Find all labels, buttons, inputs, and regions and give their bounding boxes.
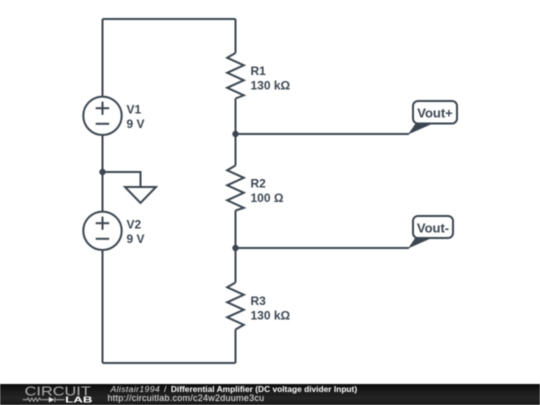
wire left upper xyxy=(102,19,104,97)
svg-text:V1: V1 xyxy=(127,103,142,117)
logo CircuitLab xyxy=(0,384,100,405)
svg-text:Vout-: Vout- xyxy=(417,220,449,235)
wire right mid2 xyxy=(235,211,237,283)
wire left middle xyxy=(102,135,104,212)
svg-text:Vout+: Vout+ xyxy=(417,105,453,120)
wire right upper xyxy=(235,19,237,53)
node junction R1/R2 xyxy=(232,131,238,137)
svg-text:R2: R2 xyxy=(251,177,267,191)
wire top rail xyxy=(103,18,236,20)
svg-text:V2: V2 xyxy=(127,218,142,232)
svg-text:130 kΩ: 130 kΩ xyxy=(251,79,291,93)
flag Vout- box xyxy=(413,216,453,238)
wire right mid1 xyxy=(235,99,237,166)
ground symbol xyxy=(125,187,156,203)
voltage source V1 xyxy=(83,97,121,135)
ground GND wire xyxy=(103,172,141,187)
svg-text:9 V: 9 V xyxy=(127,232,145,246)
svg-text:130 kΩ: 130 kΩ xyxy=(251,309,291,323)
resistor R1 xyxy=(227,53,244,99)
node junction R2/R3 xyxy=(232,245,238,251)
flag Vout+ tail xyxy=(408,124,433,135)
node junction ground xyxy=(99,169,105,175)
resistor R2 xyxy=(227,166,244,211)
wire left lower xyxy=(102,250,104,363)
svg-text:LAB: LAB xyxy=(65,396,93,405)
svg-text:9 V: 9 V xyxy=(127,117,145,131)
wire to Vout- xyxy=(236,247,410,249)
flag Vout+ box xyxy=(413,101,457,124)
resistor R3 xyxy=(227,283,244,330)
svg-text:R3: R3 xyxy=(251,294,267,308)
flag Vout- tail xyxy=(408,238,433,249)
svg-text:R1: R1 xyxy=(251,64,267,78)
svg-text:100 Ω: 100 Ω xyxy=(251,191,284,205)
wire bottom rail xyxy=(103,362,236,364)
voltage source V2 xyxy=(83,212,121,250)
wire right lower xyxy=(235,330,237,364)
footer bar xyxy=(0,384,540,405)
wire to Vout+ xyxy=(236,133,410,135)
